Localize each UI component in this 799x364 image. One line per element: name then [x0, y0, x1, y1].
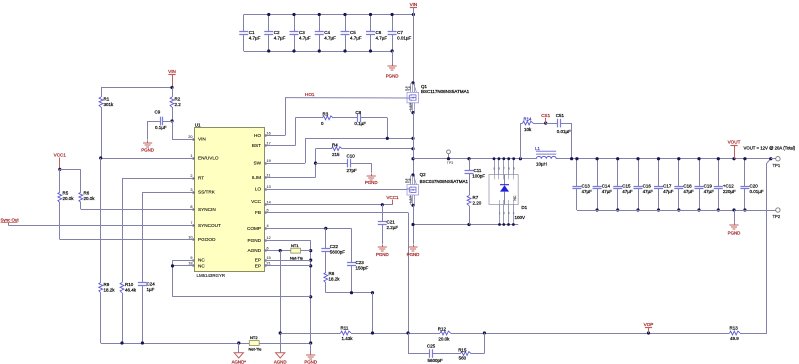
svg-text:R6: R6: [84, 191, 90, 196]
svg-text:47µF: 47µF: [643, 189, 654, 194]
svg-text:EN/UVLO: EN/UVLO: [198, 156, 219, 161]
svg-text:C3: C3: [299, 30, 305, 35]
svg-text:BSC117N08NS5ATMA1: BSC117N08NS5ATMA1: [421, 89, 470, 94]
svg-text:Net-Tie: Net-Tie: [249, 346, 263, 351]
svg-text:R10: R10: [125, 282, 134, 287]
svg-text:8: 8: [190, 205, 192, 209]
svg-text:LO: LO: [255, 187, 262, 192]
svg-text:C10: C10: [347, 153, 356, 158]
svg-text:Sync Out: Sync Out: [1, 218, 20, 223]
svg-text:9: 9: [190, 256, 192, 260]
svg-text:150pF: 150pF: [356, 265, 369, 270]
svg-text:47µF: 47µF: [663, 189, 674, 194]
svg-text:EP: EP: [255, 258, 261, 263]
svg-text:4.7µF: 4.7µF: [249, 36, 261, 41]
svg-text:NC: NC: [198, 258, 205, 263]
svg-text:1.43k: 1.43k: [342, 336, 354, 341]
svg-text:HO: HO: [254, 133, 261, 138]
svg-text:14: 14: [267, 201, 271, 205]
svg-text:PGND: PGND: [365, 180, 378, 185]
svg-text:VIN: VIN: [168, 69, 176, 74]
svg-text:0.01µF: 0.01µF: [397, 36, 411, 41]
svg-text:2: 2: [190, 174, 192, 178]
svg-text:TP2: TP2: [773, 214, 781, 219]
svg-text:4.7µF: 4.7µF: [350, 36, 362, 41]
svg-text:R14: R14: [524, 117, 532, 122]
svg-text:LM5143RGYR: LM5143RGYR: [197, 273, 226, 278]
svg-text:R15: R15: [458, 347, 467, 352]
svg-text:4.7µF: 4.7µF: [299, 36, 311, 41]
svg-text:11: 11: [267, 173, 271, 177]
svg-text:Net-Tie: Net-Tie: [290, 256, 304, 261]
svg-text:19: 19: [267, 159, 271, 163]
svg-text:3: 3: [190, 188, 192, 192]
svg-text:C6: C6: [376, 30, 382, 35]
svg-text:220µF: 220µF: [723, 189, 736, 194]
svg-text:16: 16: [267, 131, 271, 135]
svg-text:20.0k: 20.0k: [63, 196, 75, 201]
svg-text:215: 215: [332, 152, 340, 157]
svg-text:C21: C21: [387, 219, 396, 224]
svg-text:47µF: 47µF: [622, 189, 633, 194]
svg-text:L1: L1: [535, 146, 540, 151]
svg-text:VIN: VIN: [410, 2, 418, 7]
svg-text:2.20: 2.20: [473, 200, 482, 205]
svg-text:7: 7: [190, 221, 192, 225]
svg-text:+C12: +C12: [723, 184, 734, 189]
svg-text:301k: 301k: [104, 102, 115, 107]
svg-text:EP: EP: [255, 264, 261, 269]
svg-text:PGND: PGND: [376, 252, 389, 257]
svg-text:R9: R9: [104, 282, 110, 287]
svg-text:R5: R5: [63, 191, 69, 196]
svg-text:10µH: 10µH: [536, 161, 547, 166]
svg-text:C8: C8: [355, 110, 361, 115]
svg-text:2.2: 2.2: [175, 102, 182, 107]
svg-text:TP3: TP3: [447, 161, 454, 165]
svg-text:5600pF: 5600pF: [330, 250, 346, 255]
svg-text:C18: C18: [683, 184, 692, 189]
svg-text:20.0k: 20.0k: [84, 196, 96, 201]
svg-text:C14: C14: [602, 184, 611, 189]
svg-text:R7: R7: [473, 195, 479, 200]
svg-text:5: 5: [267, 208, 269, 212]
svg-text:TP1: TP1: [773, 163, 781, 168]
svg-text:47µF: 47µF: [582, 189, 593, 194]
svg-text:7,8: 7,8: [407, 86, 411, 91]
svg-text:VOP: VOP: [644, 322, 654, 327]
svg-text:C16: C16: [643, 184, 652, 189]
svg-text:4: 4: [267, 224, 269, 228]
svg-text:47µF: 47µF: [683, 189, 694, 194]
svg-text:C20: C20: [750, 184, 759, 189]
svg-text:VCC1: VCC1: [386, 195, 399, 200]
svg-text:C51: C51: [556, 113, 565, 118]
svg-text:PGND: PGND: [141, 148, 154, 153]
svg-text:R12: R12: [438, 326, 447, 331]
svg-text:C24: C24: [147, 282, 156, 287]
svg-text:C25: C25: [427, 344, 436, 349]
svg-text:13: 13: [267, 185, 271, 189]
svg-text:COMP: COMP: [247, 226, 261, 231]
svg-text:PGND: PGND: [304, 360, 317, 364]
svg-text:R3: R3: [323, 111, 329, 116]
svg-text:100pF: 100pF: [472, 174, 485, 179]
svg-text:VIN: VIN: [198, 137, 206, 142]
svg-text:R13: R13: [730, 325, 739, 330]
svg-text:C11: C11: [474, 168, 482, 173]
svg-text:12: 12: [267, 236, 271, 240]
svg-text:R2: R2: [175, 97, 181, 102]
svg-text:AGND*: AGND*: [232, 360, 247, 364]
svg-text:RT: RT: [198, 176, 204, 181]
svg-text:18.2k: 18.2k: [329, 276, 341, 281]
svg-text:C2: C2: [274, 30, 280, 35]
svg-text:49.9: 49.9: [730, 336, 739, 341]
svg-text:27pF: 27pF: [347, 168, 358, 173]
svg-text:NT1: NT1: [291, 243, 299, 248]
svg-text:46.4k: 46.4k: [125, 287, 137, 292]
svg-text:ILIM: ILIM: [252, 175, 261, 180]
svg-text:SS/TRK: SS/TRK: [198, 190, 216, 195]
svg-text:R1: R1: [104, 97, 110, 102]
svg-text:VCC: VCC: [251, 199, 262, 204]
svg-text:C13: C13: [582, 184, 591, 189]
svg-text:1,2,3: 1,2,3: [408, 103, 412, 110]
svg-text:R4: R4: [332, 142, 338, 147]
svg-text:C1: C1: [249, 30, 255, 35]
svg-text:18.2k: 18.2k: [104, 287, 116, 292]
svg-text:Q2: Q2: [420, 172, 427, 177]
svg-text:AGND: AGND: [274, 360, 287, 364]
svg-text:HO1: HO1: [305, 92, 315, 97]
svg-text:20.0k: 20.0k: [438, 336, 450, 341]
svg-text:0.1µF: 0.1µF: [354, 121, 366, 126]
svg-text:VCC1: VCC1: [54, 153, 67, 158]
svg-text:VOUT = 12V @ 20A (Total): VOUT = 12V @ 20A (Total): [744, 146, 796, 151]
svg-text:0.01µF: 0.01µF: [750, 189, 764, 194]
svg-text:47µF: 47µF: [602, 189, 613, 194]
svg-text:47µF: 47µF: [704, 189, 715, 194]
svg-text:1,2,3: 1,2,3: [408, 196, 412, 203]
svg-text:NT2: NT2: [250, 335, 258, 340]
svg-text:PGND: PGND: [728, 231, 741, 236]
svg-text:4.7µF: 4.7µF: [274, 36, 286, 41]
svg-text:C15: C15: [622, 184, 631, 189]
svg-text:C7: C7: [397, 30, 403, 35]
svg-text:17: 17: [267, 141, 271, 145]
svg-text:R11: R11: [341, 326, 349, 331]
svg-text:C4: C4: [324, 30, 330, 35]
svg-text:0.01µF: 0.01µF: [557, 129, 571, 134]
svg-text:BST: BST: [252, 143, 261, 148]
svg-text:C5: C5: [350, 30, 356, 35]
svg-text:C17: C17: [663, 184, 672, 189]
svg-text:7,8: 7,8: [407, 178, 411, 183]
svg-text:560: 560: [459, 356, 467, 361]
svg-text:PGND: PGND: [386, 74, 399, 79]
svg-text:NC: NC: [198, 264, 205, 269]
svg-text:5600pF: 5600pF: [428, 358, 444, 363]
svg-text:10k: 10k: [524, 127, 532, 132]
svg-text:1µF: 1µF: [147, 287, 155, 292]
svg-text:R8: R8: [329, 271, 335, 276]
svg-text:AGND: AGND: [247, 248, 261, 253]
svg-text:CS1: CS1: [541, 113, 550, 118]
svg-text:VOUT: VOUT: [728, 140, 741, 145]
svg-text:SW: SW: [253, 161, 261, 166]
svg-text:BSC037N08NS5ATMA1: BSC037N08NS5ATMA1: [420, 179, 469, 184]
svg-text:6: 6: [267, 246, 269, 250]
svg-text:U1: U1: [195, 123, 201, 128]
svg-text:C22: C22: [330, 244, 339, 249]
svg-text:15: 15: [267, 256, 271, 260]
svg-text:PGOOD: PGOOD: [198, 237, 216, 242]
svg-text:C23: C23: [356, 260, 365, 265]
svg-text:SYNCOUT: SYNCOUT: [198, 223, 221, 228]
svg-text:C19: C19: [704, 184, 713, 189]
svg-text:PGND: PGND: [247, 238, 261, 243]
svg-text:PGND: PGND: [407, 252, 420, 257]
svg-text:C9: C9: [155, 109, 161, 114]
svg-text:2.2µF: 2.2µF: [387, 225, 399, 230]
svg-text:D1: D1: [521, 205, 527, 210]
svg-text:4.7µF: 4.7µF: [376, 36, 388, 41]
svg-text:100V: 100V: [515, 215, 526, 220]
svg-text:FB: FB: [255, 210, 261, 215]
svg-text:10: 10: [188, 235, 192, 239]
svg-text:1: 1: [190, 154, 192, 158]
svg-text:0.1µF: 0.1µF: [155, 125, 167, 130]
svg-text:20: 20: [188, 135, 192, 139]
svg-text:SYNCIN: SYNCIN: [198, 207, 216, 212]
svg-text:4.7µF: 4.7µF: [324, 36, 336, 41]
svg-text:NC: NC: [513, 195, 517, 200]
